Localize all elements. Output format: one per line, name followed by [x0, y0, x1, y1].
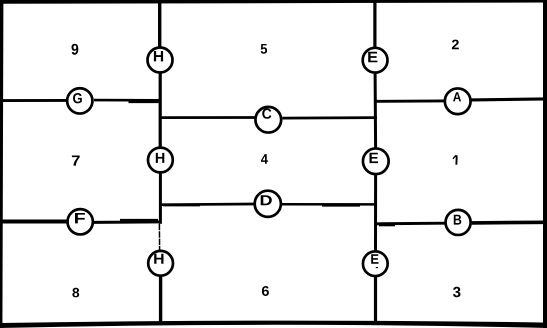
node C [255, 107, 281, 133]
wire: D wall left segment [161, 204, 254, 205]
wire: B wall left segment [377, 223, 445, 225]
wire: right vertical wall, segment between E1 and E2 [374, 74, 378, 148]
wire: right vertical wall, top segment [373, 1, 376, 47]
node H1 [148, 48, 173, 73]
wire: left vertical wall, segment between H1 and H2 [159, 74, 162, 148]
node G [67, 88, 92, 113]
node B [446, 210, 471, 235]
label: region 1 [453, 155, 457, 164]
wire: left vertical wall, bottom segment [159, 277, 162, 324]
wire: F wall right segment [94, 220, 161, 223]
label: region 7 [72, 156, 80, 166]
node E2 [363, 148, 389, 174]
node H3 [148, 251, 173, 276]
wire: left vertical wall, segment between H2 and H3 [159, 174, 160, 251]
wire: G wall left segment [1, 99, 67, 102]
wire: right vertical wall, segment between E2 and E3 [374, 175, 377, 250]
label: region 8 [72, 288, 79, 298]
wire: A wall left segment [376, 99, 444, 102]
label: region 9 [72, 44, 79, 55]
node D [255, 191, 281, 217]
node E3 [363, 251, 388, 276]
label: region 2 [452, 40, 459, 50]
wire: G wall right segment [94, 100, 160, 102]
wire: C wall left segment [161, 116, 255, 119]
wire: A wall right segment [472, 99, 546, 100]
wire: right vertical wall, bottom segment [374, 277, 377, 324]
label: region 5 [261, 44, 267, 54]
node H2 [148, 148, 173, 173]
node F [68, 209, 93, 234]
node E1 [363, 48, 388, 73]
wire: D wall right segment [282, 204, 377, 206]
node A [445, 88, 471, 114]
label: region 4 [261, 154, 268, 164]
wire: left vertical wall, top segment [158, 1, 161, 47]
label: region 3 [453, 287, 461, 297]
wire: B wall right segment [472, 221, 545, 225]
wire: F wall left segment [1, 220, 67, 224]
label: region 6 [262, 286, 269, 296]
wire: C wall right segment [283, 116, 378, 119]
